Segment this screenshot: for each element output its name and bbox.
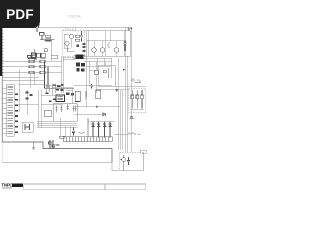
winding W1 [75, 91, 80, 101]
wire lower mid [74, 113, 105, 115]
wire j1 out [14, 104, 39, 106]
logo tagline [2, 186, 12, 189]
wire footer drops [60, 118, 70, 138]
wire right box internals [130, 110, 144, 123]
transformer T1 windings [73, 56, 85, 59]
node corner marks [127, 28, 132, 31]
capacitor bank column [82, 43, 85, 52]
connector J1 pins [7, 87, 13, 134]
mains plug P1 [34, 25, 40, 32]
relay K1 box [22, 122, 33, 132]
wire long mid [74, 106, 120, 108]
connector J1 block [7, 84, 15, 136]
wire cross right [116, 85, 147, 87]
primary dashed box [63, 31, 84, 57]
connector J1 pin labels [15, 94, 18, 133]
wire left border lower dotted [1, 142, 3, 162]
bus right pair [121, 28, 128, 152]
wire l3 link [114, 133, 141, 135]
IC U1 area cluster [56, 95, 65, 102]
IC U2 box [45, 110, 52, 116]
transistor Q6 [94, 70, 99, 75]
winding W2 [96, 90, 101, 99]
lower cluster parts [49, 140, 55, 149]
diode D3 [103, 122, 106, 138]
resistor R4 [44, 49, 47, 52]
bus right inner [118, 58, 120, 150]
diode D2 [97, 122, 100, 138]
wire right border [130, 27, 132, 152]
dashed box right [129, 89, 146, 113]
wire left border [1, 27, 3, 142]
secondary rail box [84, 31, 131, 57]
diode D7 [130, 116, 133, 119]
resistor R2 [40, 65, 45, 67]
relay K1 contacts [25, 124, 30, 130]
wire primary links [63, 34, 76, 60]
fuse F1 cluster [40, 33, 53, 42]
resistor R8 [60, 136, 65, 138]
capacitor C12 [90, 84, 93, 88]
wire left drops [18, 70, 44, 112]
wire u1 right link [44, 85, 72, 104]
wire ic links [39, 87, 73, 128]
wire j1 column [26, 90, 28, 115]
diode D6 [103, 113, 106, 116]
connector J2 footer [63, 137, 112, 142]
resistor R3 [40, 71, 45, 73]
IC U3 box [53, 104, 77, 122]
bus vertical center [62, 56, 64, 93]
regulator VR1 [131, 90, 134, 109]
ground G1 [32, 142, 35, 149]
cluster upper-left parts [28, 55, 37, 60]
box driver stage [98, 66, 116, 87]
wire mains drop [50, 40, 52, 61]
rail lower [88, 121, 114, 123]
transistor Q4 [100, 48, 105, 53]
wire rail pair [87, 118, 89, 138]
node J [96, 106, 98, 108]
wire top border [2, 26, 131, 28]
resistor R7 [29, 71, 34, 73]
node bus dot [123, 69, 125, 71]
logo badge [12, 184, 23, 187]
box control top [51, 55, 58, 59]
wire mid horizontal [74, 85, 112, 87]
capacitor C13 [72, 128, 75, 136]
wire inner verticals [106, 31, 125, 57]
transistor Q1 [69, 34, 73, 38]
capacitor C14 [116, 88, 119, 93]
diode D1 [92, 122, 95, 138]
wire winding links [85, 91, 87, 100]
connector J1 stubs [2, 88, 6, 133]
transformer T1 lower windings [76, 63, 85, 72]
driver internals [103, 68, 109, 78]
resistor R5 [29, 60, 34, 62]
regulator VR2 [136, 90, 139, 109]
wire center bundle [37, 121, 77, 127]
PDF badge [0, 0, 40, 28]
wire center bus dark [44, 61, 74, 88]
transistor Q7 [121, 155, 126, 171]
resistor R12 [75, 39, 80, 41]
diode D4 [109, 122, 112, 138]
footer strip divider [104, 184, 106, 190]
wire secondary rails [84, 58, 112, 85]
capacitor C11 [80, 31, 83, 41]
resistor R11 [75, 35, 80, 37]
dashed box lower right [120, 152, 144, 170]
svg-text:CS21A-4: CS21A-4 [64, 28, 77, 32]
parts j1 side [26, 92, 33, 100]
node primary junction [77, 45, 80, 48]
label mark [56, 144, 60, 146]
capacitor C20 [127, 157, 130, 165]
svg-text:CS21A: CS21A [68, 14, 81, 19]
wire center bus ticks [47, 84, 55, 96]
inductor L2 [108, 42, 109, 48]
cluster center parts [46, 84, 64, 102]
wire bottom border [2, 152, 143, 170]
wire inner stepped boundary [2, 142, 112, 162]
wire rail drops [88, 31, 116, 57]
wire fuse line [40, 39, 55, 41]
transformer T1 core [75, 55, 83, 60]
wire feed joins [45, 61, 62, 72]
node top marks [132, 79, 141, 82]
parts right of U1 [66, 93, 74, 96]
connector J2 pins [66, 137, 108, 142]
IC U3 internals [55, 104, 76, 113]
connector edge bar [0, 28, 3, 76]
resistor R1 [40, 60, 45, 62]
footer strip box [24, 184, 146, 190]
resistor R6 [29, 66, 34, 68]
wire left feeds [2, 61, 45, 80]
regulator VR3 [141, 90, 144, 109]
inductor L3 [79, 132, 137, 134]
sheet background [0, 0, 149, 198]
diode D5 [124, 41, 127, 52]
transistor Q2 [65, 41, 69, 45]
wire q6 links [86, 31, 111, 107]
transistor Q3 [92, 48, 97, 53]
filter L1 [32, 49, 46, 61]
wire lower cross [96, 89, 130, 91]
rail top [86, 40, 126, 42]
transistor Q5 [114, 48, 119, 53]
node corner box [141, 150, 146, 153]
